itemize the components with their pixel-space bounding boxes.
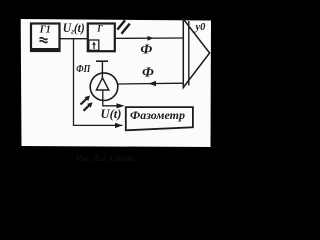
svg-text:Фазометр: Фазометр xyxy=(130,108,185,122)
photodiode triangle in ФП xyxy=(96,78,109,90)
generator Г1 xyxy=(30,24,60,52)
svg-text:Г1: Г1 xyxy=(39,25,51,36)
wire: reference signal down to phase meter xyxy=(74,39,123,126)
incident light arrow 1 xyxy=(81,99,87,105)
svg-text:Ф: Ф xyxy=(140,43,152,58)
returning beam Ф xyxy=(118,82,184,85)
reflector front face line xyxy=(188,21,190,86)
svg-text:Г: Г xyxy=(96,24,103,34)
ФП top terminal stem xyxy=(101,61,103,78)
black page background xyxy=(0,0,231,173)
svg-text:Uг(t): Uг(t) xyxy=(63,20,85,36)
ФП top terminal bar xyxy=(96,60,108,62)
photodetector ФП circle xyxy=(90,73,118,101)
AC (sine) symbol in Г1 xyxy=(40,38,48,40)
corner reflector УО xyxy=(183,19,209,88)
svg-text:у0: у0 xyxy=(194,22,207,33)
phase meter Фазометр xyxy=(126,107,193,130)
incident light arrow 2 xyxy=(84,105,90,111)
emission arrow in sub-box xyxy=(93,44,95,50)
outgoing beam arrowhead xyxy=(148,36,154,41)
white scanned figure area xyxy=(21,19,211,147)
modulated light source Г xyxy=(88,24,115,52)
emitter sub-box inside Г xyxy=(89,40,99,50)
svg-text:ФП: ФП xyxy=(76,64,91,75)
U(t) wire arrowhead into phase meter xyxy=(117,103,125,108)
svg-text:Рис. 8.2. Схема: Рис. 8.2. Схема xyxy=(75,153,135,163)
outgoing beam Ф xyxy=(115,37,183,39)
wire Г1 to Г xyxy=(60,38,88,40)
radiation hatch marks at Г output xyxy=(117,20,125,29)
arrowhead into phase meter (bottom wire) xyxy=(115,123,123,128)
returning beam arrowhead (points left) xyxy=(149,81,157,86)
wire U(t): ФП output to phase meter xyxy=(103,90,123,106)
svg-text:U(t): U(t) xyxy=(101,106,122,121)
svg-text:Ф: Ф xyxy=(142,66,154,81)
